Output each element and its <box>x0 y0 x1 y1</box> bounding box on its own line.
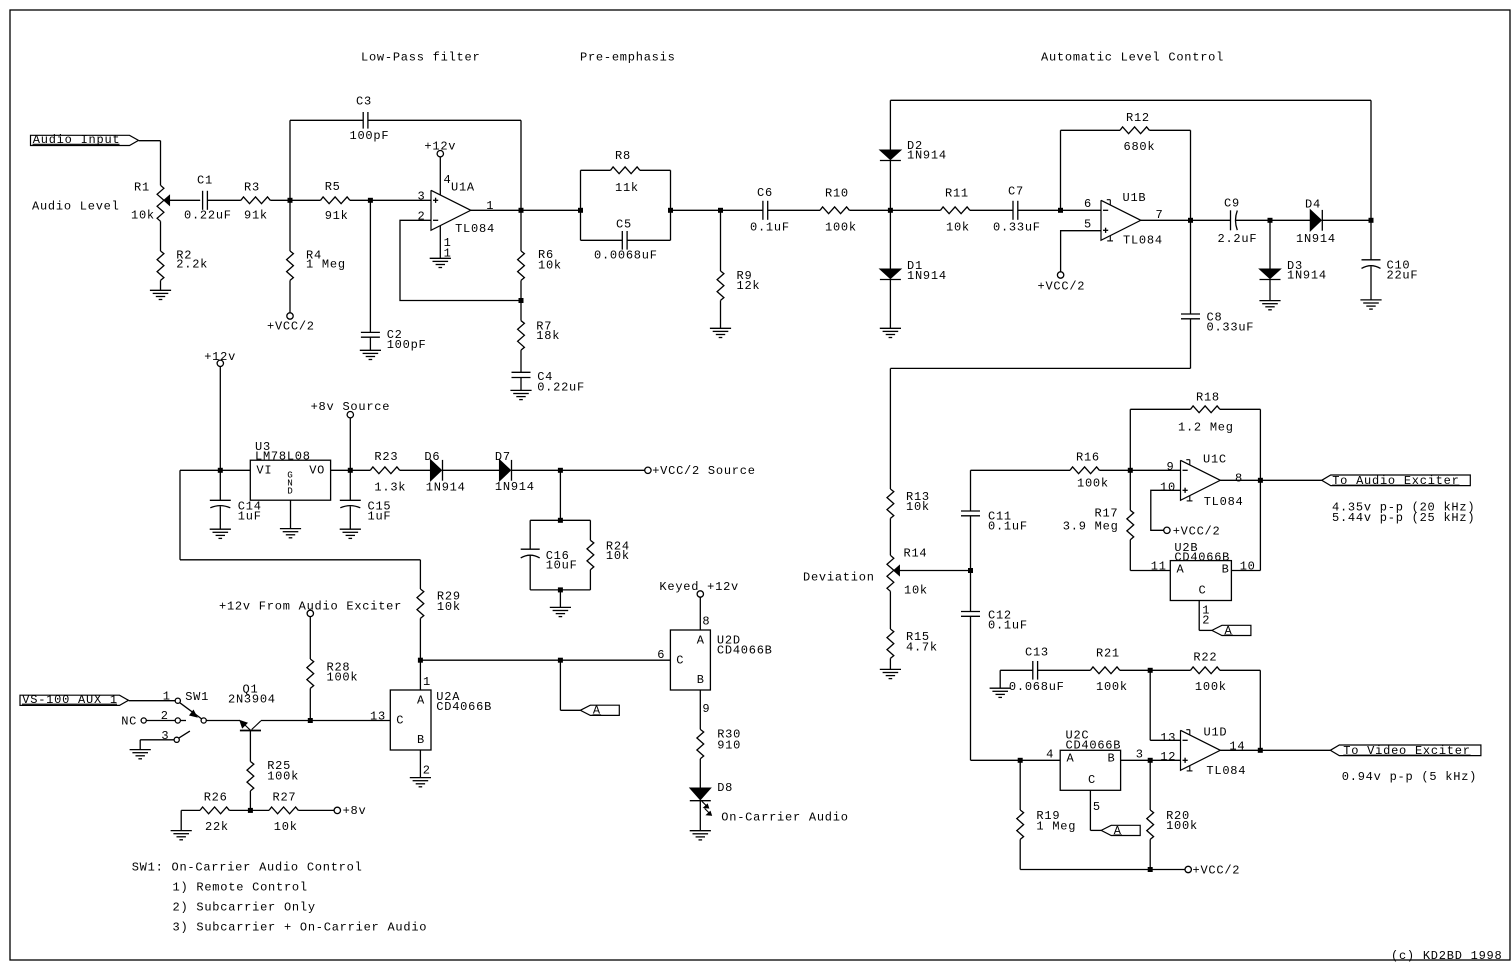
svg-text:R8: R8 <box>615 149 631 163</box>
diode D6 1N914 <box>431 460 442 481</box>
capacitor C13 0.068uF <box>1000 669 1033 671</box>
wire U1A output <box>471 209 521 211</box>
op-amp U1A TL084 <box>431 190 471 230</box>
wire bottom +VCC/2 rail <box>1020 869 1150 871</box>
node A tag junction <box>558 658 563 663</box>
svg-text:0.22uF: 0.22uF <box>184 209 232 223</box>
svg-text:100k: 100k <box>1166 819 1198 833</box>
resistor R10 100k <box>820 207 849 214</box>
svg-text:R3: R3 <box>244 181 260 195</box>
svg-text:2: 2 <box>418 210 426 224</box>
diode D1 1N914 <box>889 210 891 269</box>
svg-text:D4: D4 <box>1305 197 1321 211</box>
svg-text:A: A <box>417 694 425 708</box>
svg-text:1.3k: 1.3k <box>374 480 406 494</box>
svg-text:(c) KD2BD 1998: (c) KD2BD 1998 <box>1391 949 1502 963</box>
svg-text:B: B <box>417 733 425 747</box>
svg-text:10: 10 <box>1240 559 1256 573</box>
node R5/C2 junction <box>368 198 373 203</box>
resistor R22 100k <box>1150 669 1190 671</box>
wire U1B pin 5 to +VCC/2 <box>1061 231 1101 272</box>
svg-text:B: B <box>1222 563 1230 577</box>
svg-text:2: 2 <box>161 709 169 723</box>
ground below SW1 contact 3 <box>130 749 151 751</box>
svg-text:SW1: SW1 <box>185 690 209 704</box>
node +VCC/2 under R4 <box>287 313 293 319</box>
resistor R8 11k <box>580 170 582 240</box>
capacitor C6 0.1uF <box>762 201 764 220</box>
svg-text:C5: C5 <box>616 217 632 231</box>
op-amp U1B TL084 <box>1101 200 1141 240</box>
resistor R26 22k <box>181 809 200 811</box>
svg-text:10uF: 10uF <box>546 559 578 573</box>
op-amp U1C TL084 <box>1181 460 1221 500</box>
svg-text:+VCC/2: +VCC/2 <box>1193 864 1241 878</box>
wire R10 to diode node <box>849 209 890 211</box>
svg-text:2: 2 <box>423 764 431 778</box>
wire U2B control pin 12 <box>1198 601 1200 631</box>
capacitor C14 1uF <box>219 470 221 500</box>
wire R11 to C7 <box>970 209 1013 211</box>
svg-text:1.2 Meg: 1.2 Meg <box>1178 421 1234 435</box>
svg-text:R18: R18 <box>1196 390 1220 404</box>
svg-text:9: 9 <box>702 702 710 716</box>
node To Video Exciter tag <box>1330 745 1481 756</box>
svg-text:D6: D6 <box>424 450 440 464</box>
svg-text:TL084: TL084 <box>1206 764 1246 778</box>
ground below C10 <box>1360 299 1381 301</box>
node R19 junction <box>1018 758 1023 763</box>
svg-text:0.33uF: 0.33uF <box>993 221 1041 235</box>
switch SW1 pole and arm <box>201 718 206 723</box>
svg-text:10k: 10k <box>606 549 630 563</box>
svg-text:5: 5 <box>1084 218 1092 232</box>
ground below U1A <box>430 257 451 259</box>
svg-text:R27: R27 <box>273 791 297 805</box>
wire Q1 emitter to R25 <box>249 731 251 762</box>
svg-text:11k: 11k <box>615 181 639 195</box>
capacitor C9 2.2uF <box>1230 210 1232 230</box>
svg-text:1uF: 1uF <box>368 510 392 524</box>
svg-text:1N914: 1N914 <box>907 269 947 283</box>
svg-text:C6: C6 <box>757 186 773 200</box>
wire contact 3 to ground <box>140 739 174 741</box>
svg-text:C7: C7 <box>1008 184 1024 198</box>
svg-text:1uF: 1uF <box>238 510 262 524</box>
svg-text:TL084: TL084 <box>455 222 495 236</box>
svg-text:R5: R5 <box>325 180 341 194</box>
svg-text:10k: 10k <box>131 209 155 223</box>
diode D7 1N914 <box>500 460 511 481</box>
svg-text:Deviation: Deviation <box>803 570 875 584</box>
svg-text:C1: C1 <box>197 174 213 188</box>
wire R14 wiper to junction <box>899 570 970 572</box>
resistor R18 1.2 Meg feedback <box>1129 409 1131 470</box>
resistor R27 10k <box>250 809 269 811</box>
wire +12v to VI rail <box>219 367 221 471</box>
svg-text:On-Carrier Audio: On-Carrier Audio <box>721 811 848 825</box>
svg-text:0.94v p-p (5 kHz): 0.94v p-p (5 kHz) <box>1342 770 1477 784</box>
svg-text:10k: 10k <box>906 500 930 514</box>
node R29/U2A junction <box>418 658 423 663</box>
svg-text:D7: D7 <box>495 450 511 464</box>
capacitor C7 0.33uF <box>1012 201 1014 220</box>
resistor R13 10k <box>887 489 894 518</box>
node R21/R22 junction <box>1148 668 1153 673</box>
wire U2D pin 9 to R30 <box>699 690 701 729</box>
svg-text:22uF: 22uF <box>1387 269 1419 283</box>
svg-text:U1B: U1B <box>1123 191 1147 205</box>
svg-text:R23: R23 <box>374 450 398 464</box>
svg-text:+VCC/2: +VCC/2 <box>1038 280 1086 294</box>
svg-text:10k: 10k <box>946 220 970 234</box>
svg-text:A: A <box>1114 824 1122 838</box>
wire node to U1A pin 3 <box>370 199 431 201</box>
node C14 junction <box>218 468 223 473</box>
ground below D1 <box>880 327 901 329</box>
wire junction to U1D pin 13 <box>1149 670 1151 740</box>
wire R17 to U2B pin 11 <box>1130 570 1170 572</box>
wire U1C output <box>1220 479 1260 481</box>
ground below R15 <box>880 668 901 670</box>
resistor R5 91k <box>321 197 350 204</box>
wire Audio Input to R1 <box>139 140 161 142</box>
wire U1B output <box>1141 219 1191 221</box>
svg-text:5.44v p-p (25 kHz): 5.44v p-p (25 kHz) <box>1332 511 1475 525</box>
wire VI rail <box>180 469 250 471</box>
svg-text:100k: 100k <box>1096 680 1128 694</box>
wire tag to SW1 contact 1 <box>129 700 176 702</box>
wire diode node to R11 <box>890 209 940 211</box>
resistor R16 100k <box>971 469 1071 471</box>
svg-text:A: A <box>593 704 601 718</box>
svg-text:2.2k: 2.2k <box>176 257 208 271</box>
svg-text:0.33uF: 0.33uF <box>1207 320 1255 334</box>
wire C6 to R10 <box>768 209 820 211</box>
svg-text:R11: R11 <box>945 186 969 200</box>
node deviation wiper junction <box>968 568 973 573</box>
svg-text:2.2uF: 2.2uF <box>1218 232 1258 246</box>
wire to +VCC/2 Source terminal <box>560 469 644 471</box>
diode D2 1N914 <box>889 161 891 211</box>
node To Audio Exciter tag <box>1322 475 1471 486</box>
svg-text:U1C: U1C <box>1203 452 1227 466</box>
wire U2B pin 10 to output node <box>1231 570 1260 572</box>
wire U1C pin 10 to +VCC/2 <box>1151 490 1181 530</box>
svg-text:1 Meg: 1 Meg <box>306 257 346 271</box>
svg-text:C: C <box>1199 583 1207 597</box>
transistor Q1 2N3904 <box>240 721 247 728</box>
node C10 junction <box>1369 218 1374 223</box>
regulator U3 LM78L08 <box>250 460 330 500</box>
svg-text:D: D <box>287 486 293 497</box>
svg-text:R26: R26 <box>204 791 228 805</box>
wire control line to U2D pin 6 <box>420 659 670 661</box>
svg-text:B: B <box>1108 752 1116 766</box>
capacitor C12 0.1uF <box>970 571 972 612</box>
resistor R7 18k <box>520 301 522 321</box>
resistor R21 100k <box>1038 669 1091 671</box>
svg-text:+8v: +8v <box>343 804 367 818</box>
svg-text:B: B <box>697 673 705 687</box>
svg-text:3) Subcarrier + On-Carrier Aud: 3) Subcarrier + On-Carrier Audio <box>173 920 428 934</box>
svg-text:4: 4 <box>1046 748 1054 762</box>
wire SW1 pole to Q1 base <box>206 720 240 722</box>
svg-text:Pre-emphasis: Pre-emphasis <box>580 51 676 65</box>
svg-text:8: 8 <box>702 615 710 629</box>
wire C7 to U1B pin 6 <box>1018 209 1061 211</box>
svg-text:100k: 100k <box>327 671 359 685</box>
node U1B output junction <box>1188 218 1193 223</box>
svg-text:12k: 12k <box>737 279 761 293</box>
wire R1 wiper to C1 <box>169 199 200 201</box>
svg-text:14: 14 <box>1229 740 1245 754</box>
node R25/R26/R27 junction <box>248 808 253 813</box>
svg-text:1N914: 1N914 <box>907 149 947 163</box>
node control A tag center <box>580 705 619 715</box>
op-amp U1D TL084 <box>1181 730 1221 770</box>
svg-text:1) Remote Control: 1) Remote Control <box>173 880 308 894</box>
node control A tag U2C <box>1101 825 1140 835</box>
wire node to R5 <box>290 199 321 201</box>
wire C16/R24 box <box>559 470 561 520</box>
svg-text:U1D: U1D <box>1204 725 1228 739</box>
ground below C15 <box>340 528 361 530</box>
node D1/D2 junction <box>888 208 893 213</box>
node U1B pin 6 junction <box>1058 208 1063 213</box>
ground below D3 <box>1259 300 1280 302</box>
svg-text:100pF: 100pF <box>387 338 427 352</box>
wire C12 to U2C pin 4 <box>971 759 1021 761</box>
capacitor C1 0.22uF <box>202 191 204 210</box>
svg-text:100k: 100k <box>825 220 857 234</box>
capacitor C15 1uF <box>349 470 351 500</box>
node R28 junction <box>308 718 313 723</box>
svg-text:100pF: 100pF <box>350 129 390 143</box>
node R9 junction <box>718 208 723 213</box>
wire ALC top rail <box>890 99 1371 101</box>
svg-text:0.1uF: 0.1uF <box>988 619 1028 633</box>
wire R5 to node <box>350 199 371 201</box>
ground left of C13 <box>999 670 1001 688</box>
svg-text:+VCC/2 Source: +VCC/2 Source <box>652 464 756 478</box>
wire U1D output <box>1220 749 1260 751</box>
resistor R15 4.7k <box>889 591 891 629</box>
svg-text:2: 2 <box>1202 614 1210 628</box>
capacitor C5 0.0068uF <box>581 239 623 241</box>
wire U1A output to R8 network <box>521 209 581 211</box>
svg-text:A: A <box>1225 624 1233 638</box>
svg-text:0.0068uF: 0.0068uF <box>594 249 658 263</box>
resistor R9 12k <box>720 210 722 271</box>
wire U1A pin 11 to ground <box>439 226 441 259</box>
ground below C2 <box>360 349 381 351</box>
svg-text:1N914: 1N914 <box>1287 269 1327 283</box>
svg-text:1 Meg: 1 Meg <box>1036 820 1076 834</box>
svg-text:NC: NC <box>121 714 137 728</box>
wire R9 node to C6 <box>721 209 763 211</box>
node Audio Input tag <box>31 135 139 145</box>
capacitor C2 100pF <box>369 200 371 332</box>
node U1C pin 9 junction <box>1128 468 1133 473</box>
svg-text:R22: R22 <box>1193 650 1217 664</box>
node R8 network left junction <box>578 208 583 213</box>
svg-text:4.7k: 4.7k <box>906 641 938 655</box>
wire Q1 collector to control line <box>261 720 310 722</box>
resistor R28 100k <box>309 617 311 659</box>
LED D8 <box>690 788 711 800</box>
ground below U3 <box>280 528 301 530</box>
node +8v terminal <box>334 807 340 813</box>
resistor R30 910 <box>697 729 704 758</box>
node +VCC/2 terminal bottom <box>1185 866 1191 872</box>
svg-text:0.22uF: 0.22uF <box>537 380 585 394</box>
svg-text:SW1: On-Carrier Audio Control: SW1: On-Carrier Audio Control <box>132 860 363 874</box>
wire VO rail <box>331 469 371 471</box>
resistor R4 1 Meg <box>289 200 291 251</box>
svg-text:D8: D8 <box>717 781 733 795</box>
svg-text:2N3904: 2N3904 <box>228 693 276 707</box>
resistor R17 3.9 Meg <box>1129 470 1131 510</box>
svg-text:18k: 18k <box>536 329 560 343</box>
svg-text:3: 3 <box>161 729 169 743</box>
svg-text:100k: 100k <box>267 770 299 784</box>
wire U2C control pin 5 <box>1089 790 1091 830</box>
svg-text:C9: C9 <box>1224 197 1240 211</box>
svg-text:Audio Level: Audio Level <box>32 199 120 213</box>
wire U2A pin 1 <box>419 660 421 690</box>
wire D8 to ground <box>699 801 701 831</box>
svg-text:9: 9 <box>1167 460 1175 474</box>
svg-text:0.068uF: 0.068uF <box>1009 680 1065 694</box>
svg-text:3: 3 <box>1136 748 1144 762</box>
node R20 junction <box>1148 758 1153 763</box>
resistor R2 2.2k <box>160 221 162 251</box>
svg-text:1N914: 1N914 <box>1296 232 1336 246</box>
analog switch U2B CD4066B <box>1170 561 1231 601</box>
svg-text:11: 11 <box>1151 559 1167 573</box>
resistor R11 10k <box>941 207 970 214</box>
svg-text:10k: 10k <box>904 584 928 598</box>
svg-text:TL084: TL084 <box>1123 234 1163 248</box>
svg-text:R21: R21 <box>1096 646 1120 660</box>
svg-text:C: C <box>396 714 404 728</box>
node R3/R4/C3 junction <box>288 198 293 203</box>
wire C8 return to deviation divider <box>890 367 1190 369</box>
node C15 junction <box>348 468 353 473</box>
LED D8 arrows <box>702 801 707 806</box>
svg-text:R14: R14 <box>904 547 928 561</box>
svg-text:3.9 Meg: 3.9 Meg <box>1063 520 1119 534</box>
wire U2A pin 2 to ground <box>419 750 421 778</box>
wire VI rail to R29 <box>179 470 181 560</box>
resistor R19 1 Meg <box>1019 760 1021 810</box>
wire U2A pin 13 control <box>310 720 390 722</box>
svg-text:Low-Pass filter: Low-Pass filter <box>361 51 480 65</box>
svg-text:910: 910 <box>717 739 741 753</box>
svg-text:3: 3 <box>418 189 426 203</box>
wire R26 to ground <box>180 810 182 830</box>
svg-text:R10: R10 <box>825 186 849 200</box>
svg-text:TL084: TL084 <box>1204 495 1244 509</box>
ground below R26 <box>171 830 192 832</box>
svg-text:22k: 22k <box>205 820 229 834</box>
node control A tag U2B <box>1212 625 1251 635</box>
svg-text:C3: C3 <box>356 95 372 109</box>
node C16 bottom junction <box>530 589 590 591</box>
resistor R3 91k <box>241 197 270 204</box>
resistor R23 1.3k <box>370 467 399 474</box>
svg-text:CD4066B: CD4066B <box>436 700 492 714</box>
capacitor C10 22uF <box>1370 220 1372 259</box>
svg-text:1N914: 1N914 <box>426 480 466 494</box>
potentiometer R14 10k Deviation <box>887 555 894 591</box>
svg-text:LM78L08: LM78L08 <box>255 450 311 464</box>
capacitor C8 0.33uF <box>1190 220 1192 314</box>
capacitor C11 0.1uF <box>970 470 972 511</box>
svg-text:To Video Exciter: To Video Exciter <box>1343 744 1470 758</box>
ground below R2 <box>150 289 171 291</box>
svg-text:C: C <box>676 653 684 667</box>
wire to control A tag <box>559 660 561 710</box>
resistor R6 10k <box>520 210 522 251</box>
resistor R12 680k feedback <box>1060 130 1062 210</box>
svg-text:1: 1 <box>163 689 171 703</box>
svg-text:U1A: U1A <box>451 181 475 195</box>
wire C3 feedback rail <box>289 120 291 200</box>
analog switch U2C CD4066B <box>1060 750 1120 790</box>
svg-text:R16: R16 <box>1076 451 1100 465</box>
svg-text:10k: 10k <box>437 600 461 614</box>
svg-text:10k: 10k <box>538 259 562 273</box>
node U1A output junction <box>519 208 524 213</box>
svg-text:91k: 91k <box>244 209 268 223</box>
wire U1A feedback pin 2 <box>400 220 521 300</box>
ground below U2A <box>410 777 431 779</box>
svg-text:100k: 100k <box>1195 680 1227 694</box>
svg-text:6: 6 <box>657 648 665 662</box>
switch SW1 contact 3 <box>174 737 179 742</box>
svg-text:12: 12 <box>1160 750 1176 764</box>
wire Keyed +12v to U2D pin 8 <box>699 597 701 630</box>
resistor R20 100k <box>1149 760 1151 810</box>
svg-text:5: 5 <box>1093 800 1101 814</box>
svg-text:13: 13 <box>1160 731 1176 745</box>
diode D3 1N914 <box>1269 220 1271 269</box>
svg-text:680k: 680k <box>1124 140 1156 154</box>
ground below D8 <box>690 830 711 832</box>
wire U3 GND pin <box>290 500 292 528</box>
svg-text:+VCC/2: +VCC/2 <box>267 320 315 334</box>
switch SW1 contact 1 <box>175 698 180 703</box>
svg-text:0.1uF: 0.1uF <box>988 520 1028 534</box>
svg-text:R1: R1 <box>134 181 150 195</box>
node VS-100 AUX 1 tag <box>20 695 129 705</box>
svg-text:91k: 91k <box>325 209 349 223</box>
svg-text:A: A <box>1177 563 1185 577</box>
svg-text:1N914: 1N914 <box>495 480 535 494</box>
wire U2C pin 3 to U1D pin 12 <box>1121 759 1181 761</box>
svg-text:R17: R17 <box>1095 507 1119 521</box>
svg-text:C13: C13 <box>1025 645 1049 659</box>
svg-text:10: 10 <box>1160 480 1176 494</box>
svg-text:0.1uF: 0.1uF <box>750 221 790 235</box>
node R20 bottom junction <box>1148 867 1153 872</box>
capacitor C4 0.22uF <box>512 371 531 373</box>
ground below C4 <box>510 389 531 391</box>
capacitor C16 10uF <box>521 548 540 550</box>
svg-text:CD4066B: CD4066B <box>717 643 773 657</box>
